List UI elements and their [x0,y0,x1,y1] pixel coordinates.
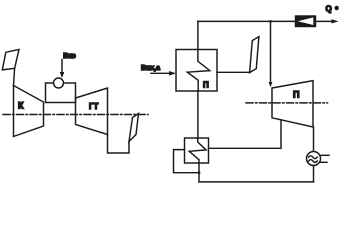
air inlet duct [2,49,19,70]
svg-text:Вкс: Вкс [63,53,75,60]
gas zigzag in P1 [187,50,210,92]
steam admission pipe to turbine [270,21,272,82]
gas turbine GT [76,88,108,135]
compressor K [14,86,44,137]
exhaust duct channel [108,135,130,154]
svg-text:Впх,а: Впх,а [141,65,160,72]
svg-text:ГТ: ГТ [89,102,99,111]
turbine shaft centerline [246,102,328,104]
extraction pipe from turbine [209,120,282,149]
heat consumer symbol [296,16,316,27]
flue gas wire from P1 [217,71,250,73]
svg-text:о: о [335,6,339,12]
main steam header wire [198,20,296,22]
heater box P2 [185,138,209,163]
steam pipe from P1 top [197,21,199,49]
combustion chamber box [46,83,76,103]
fuel nozzle circle [54,78,64,88]
fuel line Vks [61,60,63,73]
turbine exhaust pipe [313,127,315,152]
condenser circle [307,152,321,166]
condensate pipe down [313,166,315,182]
zigzag in P2 [189,138,206,163]
flue stack parallelogram [250,37,259,73]
svg-text:Q: Q [326,5,332,14]
svg-text:П: П [293,90,299,100]
condenser waves [309,156,318,159]
fuel arrowhead [60,72,65,78]
shaft centerline GT unit [3,114,148,116]
exhaust stack parallelogram [129,114,139,142]
wire inlet to compressor [14,68,15,85]
svg-text:К: К [18,101,24,111]
drain line through offset box [198,163,200,182]
HRSG boiler box P1 [176,50,217,92]
downcomer P1 to P2 [197,91,199,138]
steam turbine P [272,81,313,127]
svg-text:П: П [203,81,209,90]
condensate return wire [199,181,314,183]
junction dot [198,171,201,174]
offset box behind P2 [174,150,200,173]
heat output arrow Q [316,20,333,22]
cooling water ticks [321,154,330,156]
feedwater inlet arrow Vpx,a [151,72,170,74]
junction dot [269,20,272,23]
